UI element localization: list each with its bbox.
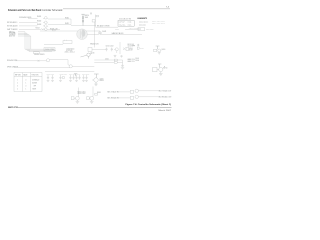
ground: [69, 80, 72, 81]
svg-text:March 2007: March 2007: [159, 109, 172, 112]
ground: [94, 84, 97, 86]
arrow mark: [163, 66, 165, 68]
wire bus vertical: [24, 32, 26, 49]
wire bus turn right: [25, 48, 55, 50]
svg-text:LM4890MTX: LM4890MTX: [137, 17, 148, 20]
relay box K0100: [63, 41, 72, 44]
svg-text:C0506: C0506: [135, 60, 139, 62]
wire bottom row2: [14, 66, 69, 68]
svg-text:C0601 C0602: C0601 C0602: [47, 73, 55, 75]
wire from Q0401: [50, 60, 68, 65]
wire bottom row1: [15, 60, 46, 62]
crystal Y0100: [92, 20, 95, 22]
svg-text:C0604 C0605 C0606: C0604 C0605 C0606: [69, 73, 80, 75]
svg-text:R0112: R0112: [65, 23, 69, 25]
resistor R0121: [82, 17, 84, 19]
wire row A: [117, 91, 130, 93]
bottom right double wires: [94, 59, 124, 69]
svg-text:VR0110 VR0111: VR0110 VR0111: [34, 54, 45, 56]
crystal X0200: [123, 48, 126, 51]
decoupling row: [47, 75, 88, 82]
transistor Q0802: [90, 96, 94, 100]
wire below IC: [125, 29, 141, 31]
wire net B: [94, 61, 114, 63]
svg-text:C0603 R0601: C0603 R0601: [60, 73, 68, 75]
svg-text:MUTE: MUTE: [33, 89, 37, 91]
supply rail T mid: [74, 74, 77, 76]
transistor Q0200: [115, 48, 118, 51]
right mid stack C0301 R0301: [137, 44, 139, 49]
transistor Q0300: [158, 49, 161, 52]
transistor Q0804: [135, 95, 138, 98]
junction X: [38, 60, 40, 62]
power VCC arrow: [90, 13, 91, 15]
speaker LS0100 circle: [77, 29, 88, 40]
wire row4: [19, 28, 41, 30]
bottom center stage feeds: [71, 87, 97, 104]
svg-text:GND 5: GND 5: [115, 29, 119, 31]
wire row1: [28, 17, 38, 19]
capacitor C0201: [105, 48, 107, 52]
svg-text:Schematics and Parts Lists: Ma: Schematics and Parts Lists: Main Board: [8, 9, 41, 12]
svg-text:C0141: C0141: [102, 31, 106, 33]
svg-text:16.8M: 16.8M: [129, 49, 133, 51]
ground: [114, 55, 117, 57]
resistor R0601: [63, 76, 65, 78]
op-amp U0103 box: [118, 20, 134, 26]
supply rail: [158, 63, 161, 65]
speaker inner detail: [82, 30, 86, 37]
wire from box: [92, 49, 106, 51]
svg-text:500 MW: 500 MW: [32, 83, 38, 85]
diode CR0110: [34, 52, 40, 54]
wire row3: [19, 25, 38, 27]
transistor Q0103: [45, 25, 48, 28]
svg-text:100K: 100K: [85, 17, 88, 19]
long bottom wire: [45, 71, 94, 73]
footer rule: [18, 107, 172, 109]
svg-text:R0802 C0802: R0802 C0802: [78, 93, 86, 95]
svg-text:C0301: C0301: [131, 44, 135, 46]
svg-text:MAEPF-27789: MAEPF-27789: [8, 106, 18, 109]
box R0305: [154, 49, 157, 52]
svg-text:R0162 100K: R0162 100K: [139, 25, 146, 27]
svg-text:J0401-1 J0401-2: J0401-1 J0401-2: [65, 51, 75, 53]
svg-text:SPKR COMMON: SPKR COMMON: [7, 67, 18, 69]
svg-text:R0301: R0301: [140, 48, 144, 50]
inductor L0502: [114, 62, 117, 64]
capacitor C0605: [72, 75, 74, 80]
capacitor C0603: [59, 75, 61, 80]
resistor R0122: [82, 20, 84, 22]
capacitor C0602: [51, 75, 53, 80]
capacitor C0601: [47, 75, 49, 80]
svg-text:C0201 C0202: C0201 C0202: [106, 46, 114, 48]
header rule: [63, 8, 170, 10]
wire junction down: [122, 60, 124, 65]
transistor Q0600: [92, 78, 98, 86]
wire vertical: [119, 42, 121, 54]
svg-text:R0104: R0104: [36, 28, 40, 30]
transistor Q0402: [69, 65, 72, 68]
table of settings: [14, 73, 42, 92]
resistor R0131: [96, 15, 98, 17]
capacitor C0604: [69, 75, 71, 80]
svg-text:Figure 7-4. Controller Schemat: Figure 7-4. Controller Schematic (Sheet …: [126, 103, 172, 106]
box module U0110: [44, 48, 55, 51]
svg-text:OFF: OFF: [34, 86, 37, 88]
ground: [82, 80, 85, 81]
filter FL0802: [130, 96, 134, 99]
wire row2: [19, 21, 38, 23]
svg-text:C0505: C0505: [135, 58, 139, 60]
svg-text:R0120: R0120: [85, 15, 89, 17]
svg-text:Q0130: Q0130: [90, 53, 94, 55]
label Q0600: [100, 79, 104, 83]
svg-text:M9466: M9466: [100, 80, 104, 82]
resistor R0104 zigzag: [41, 29, 44, 30]
capacitor C0606: [75, 75, 77, 80]
svg-text:SPKR CONN: SPKR CONN: [146, 29, 154, 31]
wire to relay: [44, 44, 63, 46]
box U0200: [88, 48, 92, 52]
svg-text:R0103: R0103: [37, 24, 41, 26]
wire row B: [117, 97, 130, 99]
svg-text:R0102: R0102: [37, 20, 41, 22]
filter FL0801: [130, 90, 134, 93]
transistor Q0104: [45, 28, 48, 31]
transistor Q0102: [45, 21, 48, 24]
supply rail for Q0300: [156, 46, 160, 49]
wire net A: [94, 59, 114, 61]
resistor R0801: [95, 93, 98, 95]
box R0700: [153, 68, 158, 72]
wire row B out: [138, 96, 158, 98]
svg-text:4 GND SDN: 4 GND SDN: [119, 25, 126, 27]
transistor Q0130: [81, 53, 92, 59]
box U0801: [71, 97, 74, 100]
svg-text:R0104 2.2K: R0104 2.2K: [50, 29, 58, 31]
ground: [120, 55, 123, 57]
transistor Q0700: [159, 68, 163, 72]
ground: [59, 80, 62, 81]
transistor Q0803: [135, 89, 138, 92]
wire vertical bus: [95, 15, 97, 28]
svg-text:Q0300: Q0300: [161, 49, 165, 51]
wire from Q0402: [72, 65, 94, 67]
supply rail UNSW B+: [81, 13, 84, 15]
connector J0101: [138, 28, 145, 31]
ground: [159, 72, 163, 76]
wire to U0103: [96, 26, 119, 28]
svg-text:FUNCTION: FUNCTION: [32, 74, 39, 76]
svg-text:R0803: R0803: [97, 92, 101, 94]
wire from speaker: [87, 33, 99, 35]
ground: [90, 101, 94, 103]
svg-text:FL0100 CFWS: FL0100 CFWS: [45, 49, 54, 51]
svg-text:5 SDN: 5 SDN: [128, 25, 132, 27]
capacitor C0503: [121, 65, 123, 67]
wire row A out: [138, 90, 158, 92]
capacitor C0609: [85, 75, 87, 80]
transistor Q0801: [76, 96, 80, 100]
ground: [76, 101, 80, 103]
box U0802: [87, 97, 89, 100]
transistor Q0101: [45, 17, 48, 20]
ground: [158, 53, 161, 55]
wire long lower: [40, 31, 142, 34]
inductor L0501: [114, 59, 117, 61]
capacitor C0607: [78, 75, 80, 80]
ground: [121, 68, 124, 70]
svg-text:Controller Schematic: Controller Schematic: [42, 9, 64, 12]
svg-text:Q0700: Q0700: [163, 68, 167, 70]
right-bottom FET stage: [158, 64, 161, 68]
capacitor C0202: [111, 48, 113, 52]
BLK row A: [108, 91, 119, 94]
svg-text:L0501: L0501: [105, 58, 109, 60]
transistor Q0401: [46, 59, 49, 62]
wire bus stubs: [18, 31, 25, 33]
ground: [47, 80, 50, 81]
resistor R0140: [99, 32, 101, 34]
svg-text:R0101: R0101: [37, 16, 41, 18]
supply rail left-bottom transistor: [94, 74, 99, 78]
svg-text:VR0200 5.6V: VR0200 5.6V: [90, 43, 99, 45]
wire mid pair: [48, 18, 71, 20]
resistor R0104 on wire: [53, 29, 56, 31]
svg-text:C0608 C0609: C0608 C0609: [82, 73, 90, 75]
capacitor C0608: [82, 75, 84, 80]
svg-text:R0111: R0111: [65, 18, 69, 20]
svg-text:REF DES: REF DES: [15, 74, 21, 76]
